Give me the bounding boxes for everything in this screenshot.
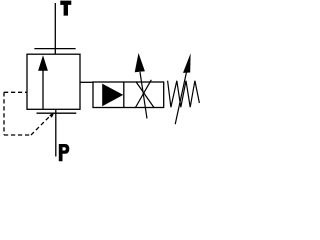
adjustment arrow shaft over spring (175, 73, 186, 125)
port label T (60, 1, 71, 16)
pilot line dashed left vertical (3, 92, 5, 135)
port label P (59, 144, 70, 161)
adjustment arrow head over spring (183, 53, 191, 73)
adjustment arrow head over orifice (135, 53, 145, 72)
tank bar above main valve (34, 48, 75, 50)
variable orifice cross line 2 (136, 82, 154, 108)
solenoid valve box divider (123, 82, 125, 108)
adjustment arrow shaft over orifice (140, 72, 147, 119)
pilot line dashed top horizontal (4, 91, 27, 93)
flow arrow shaft inside main valve (42, 70, 44, 109)
main valve body box (27, 54, 80, 109)
solenoid valve box (93, 82, 164, 108)
variable orifice cross line 1 (135, 80, 151, 108)
spring (168, 81, 200, 108)
bar below main valve (37, 112, 77, 114)
wire T line (54, 3, 56, 54)
flow arrow head inside main valve (38, 55, 48, 71)
wire P line (55, 109, 57, 156)
pilot line dashed diagonal (31, 117, 49, 135)
solenoid triangle (102, 84, 123, 107)
pilot arrow head at P junction (49, 112, 54, 117)
pilot line dashed bottom horizontal (4, 134, 31, 136)
wire from main valve to solenoid valve (80, 81, 93, 83)
